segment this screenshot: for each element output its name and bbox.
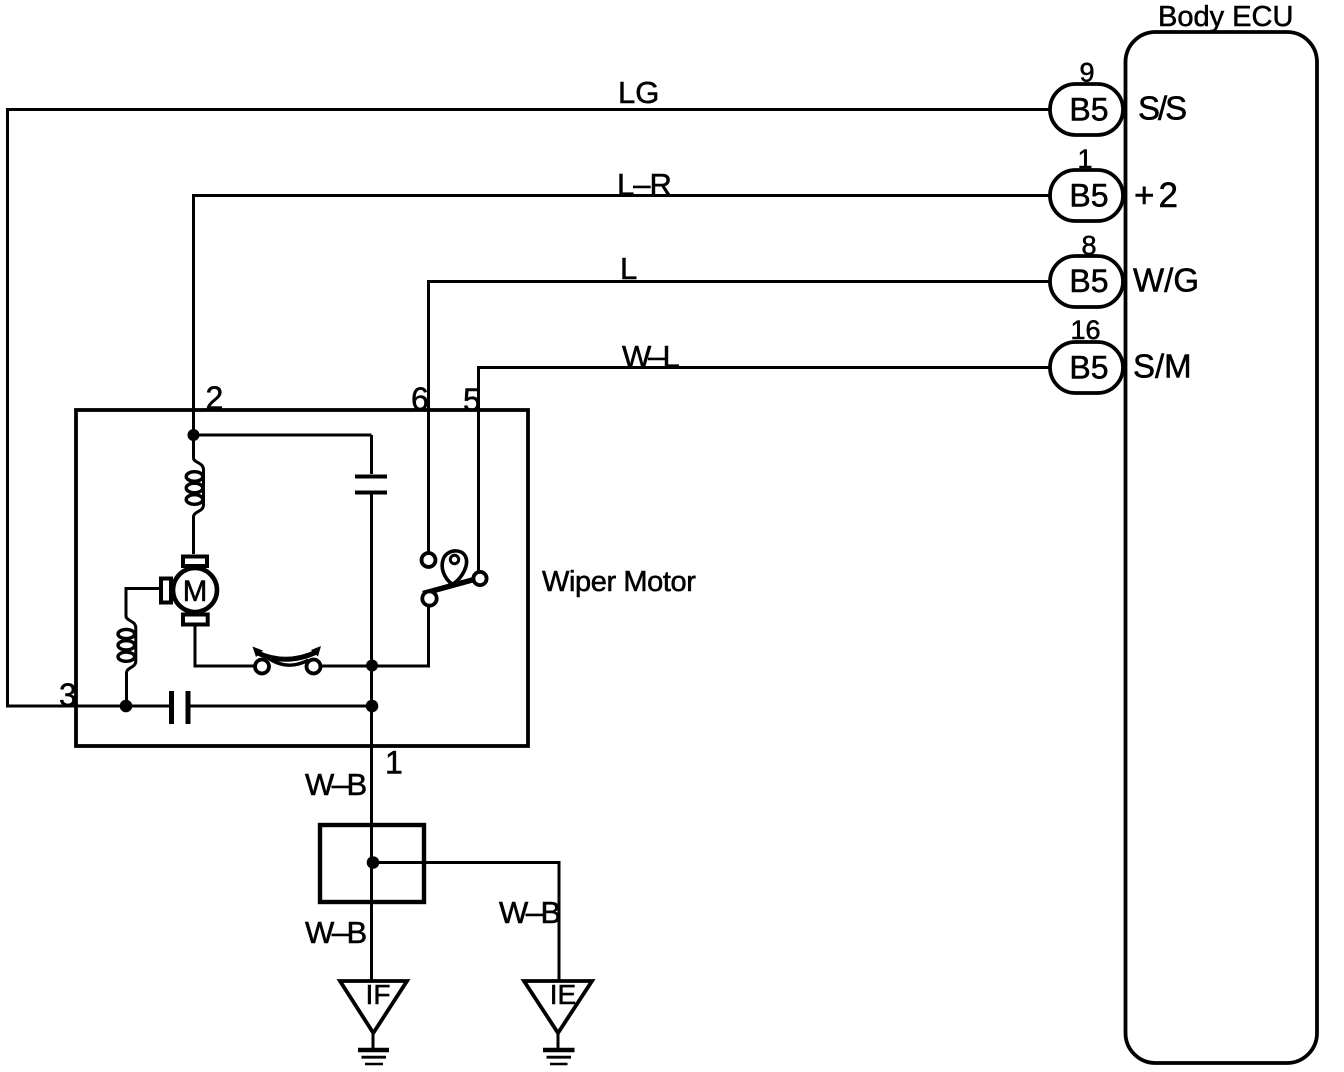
svg-text:1: 1 [385,745,403,781]
svg-text:B5: B5 [1069,263,1108,299]
svg-text:S/M: S/M [1133,348,1192,385]
svg-text:Wiper Motor: Wiper Motor [542,566,696,598]
svg-text:IE: IE [550,979,576,1010]
svg-text:W–B: W–B [499,895,561,930]
svg-text:B5: B5 [1069,350,1108,386]
svg-text:LG: LG [618,75,659,110]
svg-text:IF: IF [366,979,391,1010]
svg-text:8: 8 [1081,231,1096,261]
svg-text:S/S: S/S [1138,90,1186,127]
svg-text:6: 6 [411,381,429,417]
svg-text:W–B: W–B [305,767,367,802]
svg-text:1: 1 [1077,144,1092,174]
svg-text:L: L [620,251,637,286]
svg-text:M: M [183,575,208,608]
svg-text:W–L: W–L [622,339,680,374]
svg-text:16: 16 [1070,315,1100,345]
svg-text:L–R: L–R [617,167,671,202]
svg-text:B5: B5 [1069,178,1108,214]
svg-text:W/G: W/G [1133,262,1199,299]
svg-text:9: 9 [1079,58,1094,88]
svg-text:3: 3 [59,677,77,713]
svg-text:B5: B5 [1069,92,1108,128]
svg-text:Body ECU: Body ECU [1158,1,1293,33]
svg-text:W–B: W–B [305,915,367,950]
svg-text:5: 5 [463,382,481,418]
svg-text:+2: +2 [1134,176,1182,215]
svg-text:2: 2 [206,380,224,416]
